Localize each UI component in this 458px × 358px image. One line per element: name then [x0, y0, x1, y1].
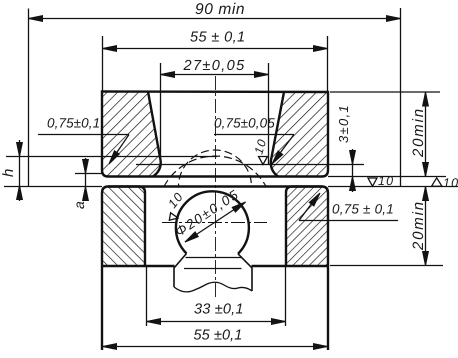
svg-text:h: h	[0, 167, 17, 177]
svg-text:90 min: 90 min	[195, 1, 245, 18]
svg-text:27±0,05: 27±0,05	[183, 58, 246, 74]
svg-text:0,75±0,05: 0,75±0,05	[214, 116, 275, 131]
svg-text:20min: 20min	[410, 200, 427, 251]
svg-text:10: 10	[378, 174, 394, 188]
svg-text:55 ±0,1: 55 ±0,1	[194, 328, 243, 344]
svg-text:55 ± 0,1: 55 ± 0,1	[190, 30, 246, 46]
svg-text:a: a	[71, 200, 87, 209]
svg-text:0,75±0,1: 0,75±0,1	[47, 116, 100, 131]
svg-text:10: 10	[443, 176, 458, 190]
svg-text:10: 10	[251, 137, 269, 156]
svg-text:Φ20±0,05: Φ20±0,05	[172, 186, 242, 239]
svg-text:20min: 20min	[410, 107, 427, 158]
svg-text:3±0,1: 3±0,1	[336, 104, 351, 143]
svg-text:0,75 ± 0,1: 0,75 ± 0,1	[332, 202, 394, 217]
svg-text:33 ±0,1: 33 ±0,1	[194, 302, 244, 318]
